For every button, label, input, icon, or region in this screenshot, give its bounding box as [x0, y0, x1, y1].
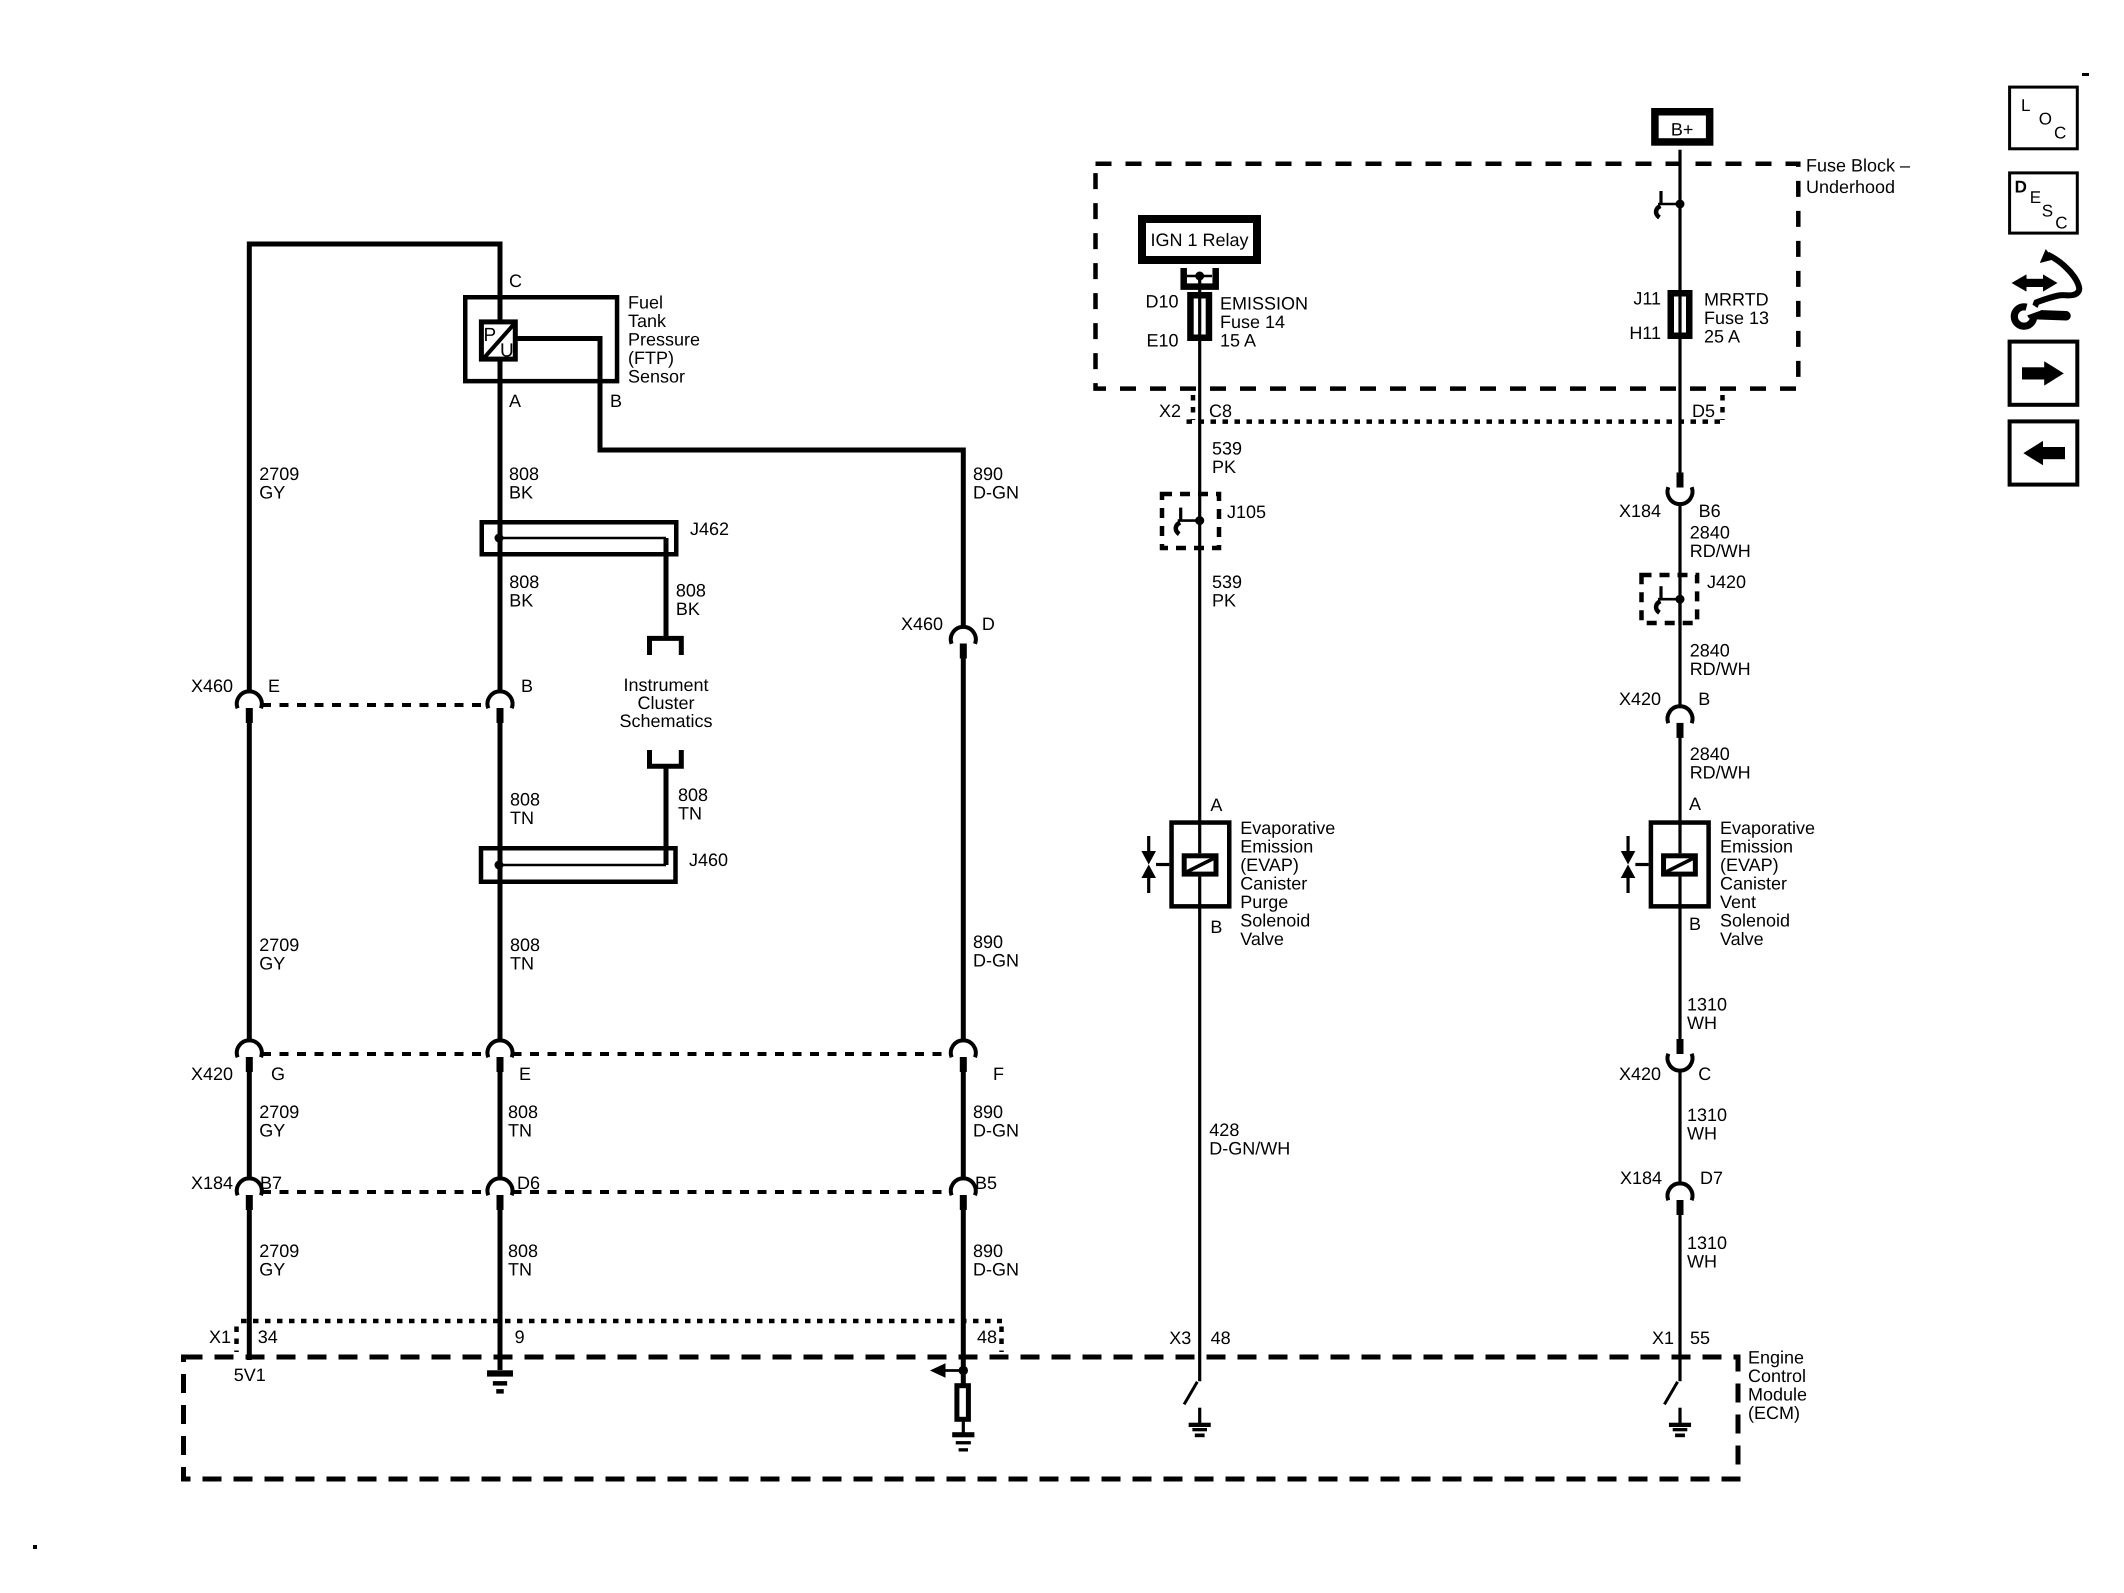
svg-text:TN: TN [510, 954, 534, 974]
svg-text:J11: J11 [1633, 289, 1661, 309]
svg-text:H11: H11 [1629, 323, 1661, 343]
wire resistor to ground [962, 1420, 965, 1434]
wire 2709 GY segment 2 [247, 723, 252, 1042]
label wire 890 D-GN (run 1) [973, 464, 1019, 503]
svg-text:S: S [2042, 202, 2053, 221]
wire 2840 RD/WH X184 to J420 [1678, 504, 1681, 625]
connector X420 pin G [237, 1040, 262, 1072]
svg-text:PK: PK [1212, 591, 1236, 611]
svg-text:D7: D7 [1700, 1168, 1723, 1188]
label wire 808 TN (run 2) [510, 935, 540, 974]
label wire 2709 GY (run 4) [259, 1241, 299, 1280]
svg-text:L: L [2021, 96, 2030, 115]
svg-text:Pressure: Pressure [628, 330, 700, 350]
label Instrument Cluster Schematics [619, 675, 712, 731]
svg-text:WH: WH [1687, 1013, 1717, 1033]
svg-text:D6: D6 [517, 1173, 540, 1193]
svg-text:B6: B6 [1699, 501, 1721, 521]
connector X460 pin D [951, 627, 976, 659]
svg-text:D-GN/WH: D-GN/WH [1209, 1138, 1290, 1158]
switch driver (ECM low-side, vent) [1664, 1382, 1680, 1424]
svg-text:X460: X460 [901, 614, 943, 634]
svg-text:X420: X420 [1619, 689, 1661, 709]
svg-text:B: B [1698, 689, 1710, 709]
svg-text:(EVAP): (EVAP) [1240, 855, 1299, 875]
svg-text:Purge: Purge [1240, 892, 1288, 912]
svg-text:Evaporative: Evaporative [1240, 818, 1335, 838]
svg-text:48: 48 [1211, 1328, 1231, 1348]
svg-text:P: P [484, 325, 497, 346]
svg-text:2840: 2840 [1690, 744, 1730, 764]
ground symbol (ECM vent driver) [1669, 1423, 1691, 1438]
svg-text:J420: J420 [1707, 572, 1746, 592]
connector X460 pin E [237, 691, 262, 723]
svg-text:X420: X420 [191, 1064, 233, 1084]
svg-text:Sensor: Sensor [628, 367, 685, 387]
label wire 1310 WH (run 2) [1687, 1105, 1727, 1144]
svg-text:Fuse 14: Fuse 14 [1220, 312, 1285, 332]
wire 2709 GY segment 4 [247, 1210, 252, 1360]
svg-text:BK: BK [509, 591, 533, 611]
svg-text:MRRTD: MRRTD [1704, 289, 1769, 309]
svg-text:808: 808 [508, 1102, 538, 1122]
svg-text:539: 539 [1212, 439, 1242, 459]
svg-text:(FTP): (FTP) [628, 348, 674, 368]
label Fuse Block - Underhood [1806, 156, 1910, 197]
label wire 808 TN (run 4) [508, 1241, 538, 1280]
connector X460 pin B [488, 691, 513, 723]
svg-text:B: B [1210, 917, 1222, 937]
svg-text:Valve: Valve [1240, 929, 1284, 949]
label wire 890 D-GN (run 4) [973, 1241, 1019, 1280]
svg-text:D-GN: D-GN [973, 951, 1019, 971]
svg-text:B: B [610, 391, 622, 411]
svg-text:B5: B5 [975, 1173, 997, 1193]
svg-text:X1: X1 [209, 1327, 231, 1347]
svg-text:55: 55 [1690, 1328, 1710, 1348]
svg-text:Tank: Tank [628, 311, 667, 331]
svg-text:RD/WH: RD/WH [1690, 541, 1751, 561]
label wire 428 D-GN/WH [1209, 1120, 1290, 1159]
wire 808 BK below P/U (pin A) [498, 360, 503, 693]
svg-text:C: C [509, 271, 522, 291]
svg-text:B+: B+ [1671, 119, 1694, 139]
svg-text:E: E [268, 676, 280, 696]
icon harness routing (double arrow, outline, wrench) [2012, 249, 2080, 326]
svg-text:X420: X420 [1619, 1064, 1661, 1084]
svg-text:Evaporative: Evaporative [1720, 818, 1815, 838]
svg-text:Engine: Engine [1748, 1347, 1804, 1367]
label wire 890 D-GN (run 3) [973, 1102, 1019, 1141]
relay output clevis bracket [1184, 268, 1216, 287]
svg-text:A: A [509, 391, 521, 411]
svg-text:2709: 2709 [259, 464, 299, 484]
svg-text:Fuse 13: Fuse 13 [1704, 308, 1769, 328]
svg-text:C: C [2054, 123, 2066, 142]
valve symbol (purge) [1141, 836, 1169, 893]
wire 1310 WH X420 to X184 [1678, 1071, 1681, 1185]
svg-text:48: 48 [977, 1327, 997, 1347]
valve symbol (vent) [1621, 836, 1649, 893]
svg-text:808: 808 [510, 935, 540, 955]
FTP sensor P/U transducer symbol [481, 322, 515, 362]
svg-text:(ECM): (ECM) [1748, 1403, 1800, 1423]
svg-text:X184: X184 [1619, 501, 1661, 521]
svg-text:X3: X3 [1169, 1328, 1191, 1348]
wire 890 D-GN segment 2 [961, 659, 966, 1042]
wire 2709 GY segment 1 (X1-34 to X460-E) [247, 242, 252, 693]
svg-text:C: C [1698, 1064, 1711, 1084]
svg-text:GY: GY [259, 954, 285, 974]
module Fuse Block - Underhood dashed box [1096, 164, 1799, 389]
svg-text:J460: J460 [689, 850, 728, 870]
svg-text:34: 34 [258, 1327, 278, 1347]
svg-text:808: 808 [509, 464, 539, 484]
connector X184 pin B5 [951, 1178, 976, 1210]
wire 808 BK branch to instrument cluster [664, 538, 669, 638]
off-page bracket to instrument cluster (upper) [650, 638, 682, 655]
wire 808 BK pin C drop [498, 242, 503, 322]
svg-text:GY: GY [259, 1121, 285, 1141]
svg-text:RD/WH: RD/WH [1690, 659, 1751, 679]
svg-text:RD/WH: RD/WH [1690, 763, 1751, 783]
connector X420 pin B [1667, 706, 1692, 738]
wire 2840 RD/WH X420 to solenoid A [1678, 737, 1681, 822]
label EVAP Canister Purge Solenoid Valve [1240, 818, 1335, 949]
svg-text:TN: TN [508, 1121, 532, 1141]
svg-text:IGN 1 Relay: IGN 1 Relay [1150, 230, 1248, 250]
svg-text:890: 890 [973, 932, 1003, 952]
svg-text:808: 808 [509, 572, 539, 592]
svg-text:808: 808 [508, 1241, 538, 1261]
svg-text:808: 808 [676, 580, 706, 600]
svg-text:Emission: Emission [1720, 836, 1793, 856]
svg-text:25 A: 25 A [1704, 326, 1740, 346]
svg-text:EMISSION: EMISSION [1220, 294, 1308, 314]
svg-text:TN: TN [508, 1260, 532, 1280]
ground symbol (ECM internal resistor) [952, 1432, 974, 1451]
svg-text:890: 890 [973, 1241, 1003, 1261]
svg-text:G: G [271, 1064, 285, 1084]
svg-text:Fuse Block –: Fuse Block – [1806, 156, 1910, 176]
svg-text:890: 890 [973, 464, 1003, 484]
fuse EMISSION Fuse 14 15A [1190, 295, 1210, 339]
svg-text:B: B [1689, 914, 1701, 934]
wire B+ feed into fuse block [1678, 150, 1681, 475]
wire 539 PK fuse to X2-C8 [1198, 276, 1201, 522]
component EVAP Canister Purge Solenoid Valve [1172, 822, 1230, 907]
connector X420 pin E [488, 1040, 513, 1072]
svg-text:D-GN: D-GN [973, 483, 1019, 503]
svg-text:Solenoid: Solenoid [1240, 910, 1310, 930]
svg-text:C8: C8 [1209, 401, 1232, 421]
icon back arrow box [2010, 421, 2078, 484]
svg-text:2709: 2709 [259, 935, 299, 955]
svg-text:BK: BK [676, 599, 700, 619]
component IGN 1 Relay label box [1142, 219, 1257, 260]
wire 539 PK J105 to solenoid A [1198, 521, 1201, 822]
svg-text:15 A: 15 A [1220, 331, 1256, 351]
connector X420 dashed line [262, 1052, 951, 1056]
svg-text:808: 808 [510, 789, 540, 809]
svg-text:2709: 2709 [259, 1241, 299, 1261]
svg-text:A: A [1210, 795, 1222, 815]
svg-text:Valve: Valve [1720, 929, 1764, 949]
svg-text:Solenoid: Solenoid [1720, 910, 1790, 930]
label FTP sensor name [628, 293, 700, 387]
svg-text:D10: D10 [1145, 291, 1178, 311]
splice J460 block [481, 848, 676, 882]
svg-text:Control: Control [1748, 1366, 1806, 1386]
connector X1 dotted line (ECM left) [237, 1321, 1003, 1352]
svg-text:(EVAP): (EVAP) [1720, 855, 1779, 875]
svg-text:Schematics: Schematics [619, 711, 712, 731]
svg-text:1310: 1310 [1687, 1233, 1727, 1253]
resistor (ECM internal pull-up) [957, 1386, 969, 1420]
connector X420 pin C [1668, 1039, 1693, 1071]
label wire 2840 RD/WH (run 2) [1690, 640, 1751, 679]
component FTP sensor box (Fuel Tank Pressure Sensor) [465, 297, 617, 381]
svg-text:O: O [2039, 110, 2052, 129]
svg-text:J105: J105 [1227, 502, 1266, 522]
svg-text:E: E [2030, 188, 2041, 207]
svg-text:C: C [2055, 214, 2067, 233]
svg-text:Vent: Vent [1720, 892, 1756, 912]
svg-text:1310: 1310 [1687, 1105, 1727, 1125]
label wire 808 BK (below J462 left) [509, 572, 539, 611]
svg-text:Module: Module [1748, 1384, 1807, 1404]
svg-text:D5: D5 [1692, 401, 1715, 421]
connector X420 pin F [951, 1040, 976, 1072]
ground symbol (ECM pin 9) [487, 1370, 513, 1393]
svg-text:A: A [1689, 794, 1701, 814]
label wire 808 TN (run 3) [508, 1102, 538, 1141]
svg-text:Instrument: Instrument [623, 675, 708, 695]
label wire 2709 GY (run 2) [259, 935, 299, 974]
svg-text:9: 9 [515, 1327, 525, 1347]
label wire 890 D-GN (run 2) [973, 932, 1019, 971]
svg-text:WH: WH [1687, 1124, 1717, 1144]
wire 428 D-GN/WH solenoid B to ECM [1198, 907, 1201, 1381]
connector X184 pin B6 [1667, 473, 1692, 505]
junction dot and bias arrow (ECM pin 48) [930, 1363, 968, 1378]
connector X184 pin D7 [1668, 1183, 1693, 1215]
page mark bottom left [33, 1545, 37, 1549]
svg-text:D-GN: D-GN [973, 1121, 1019, 1141]
wire 1310 WH solenoid B to X420-C [1678, 907, 1681, 1040]
svg-text:Emission: Emission [1240, 836, 1313, 856]
svg-text:WH: WH [1687, 1252, 1717, 1272]
svg-text:X184: X184 [1620, 1168, 1662, 1188]
icon LOC box [2010, 87, 2078, 149]
icon forward arrow box [2010, 342, 2078, 405]
svg-text:PK: PK [1212, 457, 1236, 477]
svg-text:2709: 2709 [259, 1102, 299, 1122]
svg-text:890: 890 [973, 1102, 1003, 1122]
splice J462 block [482, 522, 677, 554]
svg-text:B7: B7 [260, 1173, 282, 1193]
power symbol B+ box [1655, 112, 1710, 142]
svg-text:TN: TN [510, 808, 534, 828]
svg-text:F: F [993, 1064, 1004, 1084]
label wire 2840 RD/WH (run 1) [1690, 523, 1751, 562]
svg-text:D-GN: D-GN [973, 1260, 1019, 1280]
wire 808 TN branch from instrument cluster to J460 [664, 766, 669, 865]
relay contact symbol (B+ distribution) [1656, 191, 1684, 218]
label MRRTD Fuse 13 25 A [1704, 289, 1769, 346]
svg-text:Canister: Canister [1720, 873, 1787, 893]
svg-text:X1: X1 [1652, 1328, 1674, 1348]
svg-text:GY: GY [259, 1260, 285, 1280]
label EVAP Canister Vent Solenoid Valve [1720, 818, 1815, 949]
fuse MRRTD Fuse 13 25A [1670, 293, 1690, 337]
svg-text:BK: BK [509, 483, 533, 503]
label wire 2709 GY (run 1) [259, 464, 299, 503]
wire 890 D-GN segment 3 [961, 1072, 966, 1180]
splice J105 (dashed box with contact) [1162, 494, 1219, 548]
svg-text:B: B [521, 676, 533, 696]
splice J420 (dashed box with contact) [1642, 575, 1698, 623]
connector X2 dotted line (fuse block outlets) [1187, 395, 1724, 422]
svg-text:E: E [519, 1064, 531, 1084]
wire 2709 GY segment 3 [247, 1072, 252, 1180]
connector X184 pin B7 [237, 1178, 262, 1210]
svg-text:GY: GY [259, 483, 285, 503]
label wire 539 PK (run 1) [1212, 439, 1242, 478]
svg-text:X184: X184 [191, 1173, 233, 1193]
wire 1310 WH X184 to ECM [1678, 1215, 1681, 1381]
svg-text:D: D [2015, 178, 2027, 197]
svg-text:J462: J462 [690, 519, 729, 539]
label wire 1310 WH (run 3) [1687, 1233, 1727, 1272]
ground symbol (ECM purge driver) [1189, 1423, 1211, 1438]
wire 808 TN segment 2 [498, 723, 503, 1042]
wire 808 TN segment 4 [498, 1210, 503, 1370]
svg-text:TN: TN [678, 803, 702, 823]
label wire 808 BK (run 1) [509, 464, 539, 503]
connector X460 E-B dashed line [262, 703, 488, 707]
component EVAP Canister Vent Solenoid Valve [1651, 822, 1709, 907]
connector X184 pin D6 [488, 1178, 513, 1210]
connector X184 dashed line [262, 1190, 951, 1194]
label wire 2709 GY (run 3) [259, 1102, 299, 1141]
svg-text:2840: 2840 [1690, 640, 1730, 660]
wire 890 D-GN pin B routing [516, 339, 963, 629]
label wire 2840 RD/WH (run 3) [1690, 744, 1751, 783]
svg-text:X460: X460 [191, 676, 233, 696]
label Engine Control Module (ECM) [1748, 1347, 1807, 1423]
svg-text:Fuel: Fuel [628, 293, 663, 313]
label wire 808 BK (branch) [676, 580, 706, 619]
svg-text:D: D [982, 614, 995, 634]
label wire 539 PK (run 2) [1212, 572, 1242, 611]
module ECM dashed box [184, 1357, 1739, 1479]
wire W-top horizontal (FTP C feed) [249, 242, 502, 247]
svg-text:428: 428 [1209, 1120, 1239, 1140]
label wire 808 TN (mid left) [510, 789, 540, 828]
label EMISSION Fuse 14 15 A [1220, 294, 1308, 351]
wire 808 TN segment 3 [498, 1072, 503, 1180]
label wire 1310 WH (run 1) [1687, 994, 1727, 1033]
svg-text:808: 808 [678, 785, 708, 805]
svg-text:539: 539 [1212, 572, 1242, 592]
svg-text:Cluster: Cluster [637, 693, 694, 713]
svg-text:1310: 1310 [1687, 994, 1727, 1014]
off-page bracket from instrument cluster (lower) [650, 750, 682, 766]
svg-text:2840: 2840 [1690, 523, 1730, 543]
page mark top right [2082, 73, 2089, 76]
svg-text:5V1: 5V1 [234, 1365, 266, 1385]
switch driver (ECM low-side, purge) [1184, 1382, 1200, 1424]
label wire 808 TN (branch) [678, 785, 708, 824]
svg-text:Underhood: Underhood [1806, 177, 1895, 197]
svg-text:E10: E10 [1146, 330, 1178, 350]
icon DESC box [2010, 173, 2078, 233]
svg-text:U: U [500, 341, 514, 362]
svg-text:X2: X2 [1159, 401, 1181, 421]
wire 2840 RD/WH J420 to X420-B [1678, 599, 1681, 707]
wire 890 D-GN segment 4 [961, 1210, 966, 1385]
svg-text:Canister: Canister [1240, 873, 1307, 893]
